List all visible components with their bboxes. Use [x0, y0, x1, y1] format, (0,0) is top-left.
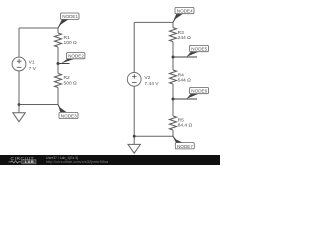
svg-text:R3: R3 [178, 30, 185, 36]
wire left vertical upper [18, 28, 20, 57]
node NODE6 flag [173, 87, 209, 99]
svg-text:V1: V1 [29, 60, 35, 66]
svg-text:LAB: LAB [25, 160, 34, 164]
wire top-left horizontal (NODE1 net) [19, 27, 58, 29]
svg-text:7.44 V: 7.44 V [144, 81, 159, 87]
node NODE7 flag [173, 136, 194, 149]
wire R3 to R4 [172, 42, 174, 70]
svg-text:100 Ω: 100 Ω [64, 40, 78, 46]
svg-text:NODE5: NODE5 [191, 47, 207, 52]
resistor R5 [170, 116, 193, 130]
svg-text:R2: R2 [64, 75, 71, 81]
resistor R2 [55, 74, 78, 88]
voltage source V1 [12, 57, 37, 72]
wire R5 to bottom [172, 130, 174, 136]
svg-text:R4: R4 [178, 72, 185, 78]
wire top horizontal (NODE4 net) [134, 21, 173, 23]
resistor R4 [170, 70, 192, 84]
junction ground node [18, 103, 21, 106]
svg-text:NODE2: NODE2 [68, 54, 84, 59]
svg-text:R5: R5 [178, 118, 185, 124]
resistor R3 [170, 28, 192, 42]
svg-text:500 Ω: 500 Ω [64, 80, 78, 86]
svg-text:R1: R1 [64, 35, 71, 41]
svg-text:NODE1: NODE1 [62, 14, 78, 19]
wire R3 lead top [172, 22, 174, 27]
node NODE1 flag [58, 13, 79, 28]
resistor R1 [55, 33, 78, 47]
wire right vertical R1 lead top [57, 28, 59, 33]
wire R2 to bottom [57, 88, 59, 105]
voltage source V2 [127, 72, 159, 86]
svg-text:7 V: 7 V [29, 66, 37, 72]
ground [128, 136, 140, 153]
wire left vertical lower [133, 86, 135, 136]
node NODE3 flag [58, 105, 78, 119]
node NODE2 junction dot [57, 62, 60, 65]
wire left vertical upper [133, 22, 135, 72]
svg-text:NODE6: NODE6 [191, 89, 207, 94]
wire R4 to R5 [172, 84, 174, 116]
svg-text:544 Ω: 544 Ω [178, 78, 192, 84]
wire bottom horizontal (NODE7 net) [134, 135, 173, 137]
node NODE6 junction dot [172, 98, 175, 101]
svg-text:84.4 Ω: 84.4 Ω [178, 123, 193, 129]
node NODE5 junction dot [172, 56, 175, 59]
svg-text:NODE7: NODE7 [177, 144, 193, 149]
svg-text:V2: V2 [144, 75, 150, 81]
node NODE4 flag [173, 7, 194, 22]
svg-text:244 Ω: 244 Ω [178, 35, 192, 41]
junction ground node [133, 135, 136, 138]
ground [13, 105, 25, 122]
node NODE5 flag [173, 45, 209, 57]
wire left vertical lower [18, 71, 20, 105]
node NODE2 flag [58, 53, 85, 64]
wire bottom horizontal (NODE3 net) [19, 104, 58, 106]
svg-text:NODE4: NODE4 [177, 9, 193, 14]
wire R1 to R2 [57, 47, 59, 74]
svg-text:http://circuitlab.com/c/s32jvn: http://circuitlab.com/c/s32jvnbr55sa [46, 160, 108, 164]
svg-text:NODE3: NODE3 [61, 114, 77, 119]
